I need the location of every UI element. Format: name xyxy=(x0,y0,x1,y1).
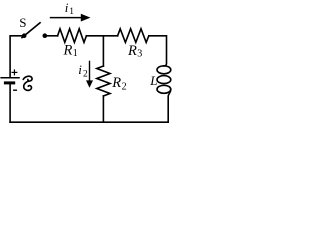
inductor L xyxy=(157,66,171,74)
battery plus sign xyxy=(12,69,18,75)
svg-text:i: i xyxy=(78,62,82,77)
svg-text:1: 1 xyxy=(73,48,78,59)
battery minus sign xyxy=(13,89,17,91)
wire battery bottom down xyxy=(9,84,11,122)
current arrow i2 xyxy=(86,61,93,88)
svg-text:2: 2 xyxy=(83,70,88,80)
svg-text:R: R xyxy=(127,43,137,59)
svg-text:L: L xyxy=(149,73,157,88)
svg-text:R: R xyxy=(111,75,121,91)
svg-text:2: 2 xyxy=(122,82,127,93)
switch blade xyxy=(22,23,40,38)
wire middle branch bottom xyxy=(102,96,104,122)
switch contact dot right xyxy=(43,33,48,38)
wire bottom xyxy=(10,121,168,123)
svg-text:i: i xyxy=(65,0,69,15)
wire inductor tail down to bottom-right corner xyxy=(168,89,171,122)
EMF script E symbol xyxy=(23,76,32,90)
svg-text:3: 3 xyxy=(137,49,142,60)
svg-text:1: 1 xyxy=(69,7,74,17)
wire top-left corner to left battery xyxy=(10,36,24,77)
resistor R2 xyxy=(97,66,110,96)
wire R3 to top-right corner down to inductor xyxy=(149,36,167,66)
wire R1 to R3 through node xyxy=(86,35,117,37)
resistor R3 xyxy=(118,29,149,43)
battery EMF source plates xyxy=(0,78,19,83)
wire middle branch top xyxy=(102,36,104,66)
current arrow i1 xyxy=(50,14,91,22)
svg-text:S: S xyxy=(19,15,26,30)
resistor R1 xyxy=(58,29,87,43)
svg-text:R: R xyxy=(63,43,73,59)
switch contact dot left xyxy=(22,33,27,38)
wire right dot to R1 xyxy=(45,35,58,37)
